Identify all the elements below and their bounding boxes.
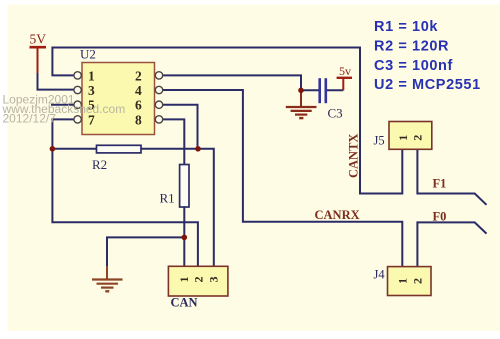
wire: J4 pin2 to F0 with bus entry (417, 222, 486, 266)
wire: pin6 (CANL) down to node B (163, 105, 198, 149)
svg-text:1: 1 (177, 277, 191, 283)
svg-text:1: 1 (396, 135, 410, 141)
ground symbol left (92, 266, 123, 291)
wire: junction to C3 left plate (301, 89, 319, 91)
notes text block (374, 19, 481, 93)
wire: pin2 (VSS) to C3 junction (163, 75, 301, 90)
wire: 5V to pin3 (VDD) (38, 73, 74, 90)
svg-text:C3: C3 (328, 106, 343, 121)
svg-text:3: 3 (88, 83, 95, 98)
op-amp U2 chip body MCP2551 (80, 47, 155, 135)
wire: R2 right through node B to CAN pin3 (141, 149, 214, 266)
wire: node A down and across to CAN pin2 (52, 149, 198, 266)
svg-text:2: 2 (411, 278, 425, 284)
junction node D at C3 (298, 88, 304, 94)
wire: node A to R2 left (52, 148, 96, 150)
resistor R1 (160, 165, 190, 208)
svg-text:3: 3 (206, 277, 220, 283)
power 5V symbol top-left (30, 32, 47, 74)
svg-text:4: 4 (135, 83, 142, 98)
svg-text:CANTX: CANTX (347, 134, 361, 178)
wire: pin5 (VREF) stub (51, 104, 74, 106)
junction node C (182, 235, 188, 241)
svg-text:F1: F1 (433, 177, 447, 191)
svg-text:2: 2 (135, 68, 142, 83)
wire: node C left to ground stem (107, 237, 184, 267)
junction node A (50, 146, 56, 152)
svg-text:U2 = MCP2551: U2 = MCP2551 (374, 77, 481, 93)
wire: pin4 (RXD) down and across (CANRX) to J4 pin1 (163, 90, 403, 267)
connector J5 (374, 122, 432, 150)
wire: pin7 (CANH) down to node A (52, 119, 74, 148)
svg-text:CAN: CAN (171, 296, 198, 310)
svg-text:R2: R2 (92, 157, 107, 172)
junction node B (195, 146, 201, 152)
svg-text:2012/12/7: 2012/12/7 (3, 112, 57, 126)
pin 2 (135, 68, 163, 83)
pin 3 (74, 83, 95, 98)
watermark (2, 93, 126, 126)
svg-text:2: 2 (411, 135, 425, 141)
svg-text:2: 2 (192, 277, 206, 283)
connector CAN (168, 266, 228, 309)
wire: R1 bottom through node C to CAN pin1 (183, 207, 185, 266)
power 5v symbol at C3 (337, 64, 352, 90)
svg-text:R1 = 10k: R1 = 10k (374, 19, 438, 35)
svg-text:C3 = 100nf: C3 = 100nf (374, 58, 453, 74)
svg-text:5V: 5V (30, 32, 47, 47)
svg-text:F0: F0 (433, 210, 447, 224)
wire: J5 pin2 to F1 with bus entry (417, 149, 486, 205)
svg-text:CANRX: CANRX (315, 208, 360, 222)
svg-text:1: 1 (396, 278, 410, 284)
pin 1 (74, 68, 95, 83)
pin 8 (135, 112, 163, 127)
svg-text:J4: J4 (374, 268, 386, 282)
wire: TXD net pin1 to J5 pin1 (CANTX) (52, 48, 402, 194)
pin 6 (135, 98, 163, 113)
pin 4 (135, 83, 163, 98)
svg-text:J5: J5 (374, 134, 385, 148)
svg-text:U2: U2 (80, 47, 96, 62)
wire: pin8 (RS) to R1 top (163, 119, 185, 164)
pin 5 (74, 98, 95, 113)
svg-text:8: 8 (135, 112, 142, 127)
svg-text:R2 = 120R: R2 = 120R (374, 39, 449, 55)
resistor R2 (92, 145, 141, 172)
pin 7 (74, 112, 95, 127)
svg-text:6: 6 (135, 98, 142, 113)
svg-text:R1: R1 (160, 191, 175, 206)
ground symbol at C3 (286, 90, 317, 118)
wire: C3 right plate to 5v stem (327, 89, 343, 91)
svg-text:5v: 5v (339, 64, 351, 78)
connector J4 (374, 267, 432, 296)
svg-text:1: 1 (88, 68, 95, 83)
capacitor C3 (320, 78, 343, 120)
